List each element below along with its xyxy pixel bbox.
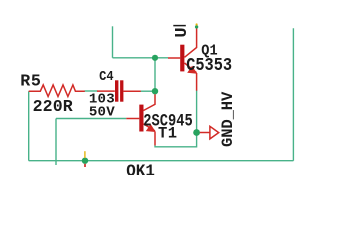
- transistor T1 base bar: [139, 105, 143, 132]
- transistor T1 collector pin: [144, 94, 156, 110]
- svg-text:GND_HV: GND_HV: [219, 91, 237, 147]
- transistor Q1 emitter pin: [196, 73, 198, 91]
- capacitor C4 left plate: [115, 80, 118, 101]
- node C junction dot (bottom wire): [82, 158, 88, 164]
- svg-text:C5353: C5353: [186, 56, 232, 77]
- svg-text:C4: C4: [99, 68, 114, 84]
- label U overline: [173, 25, 186, 27]
- capacitor C4 leads: [97, 90, 141, 92]
- wire C4 to node B: [141, 90, 153, 92]
- transistor Q1 base pin: [168, 57, 180, 59]
- svg-text:T1: T1: [158, 125, 177, 143]
- transistor Q1 collector diagonal and pin: [185, 28, 197, 57]
- node D junction dot (emitter node): [193, 129, 200, 136]
- wire vertical top-left stub: [112, 26, 114, 58]
- resistor R5: [29, 85, 85, 97]
- node A junction dot: [152, 55, 158, 61]
- flag GND_HV lead: [200, 132, 210, 134]
- wire T1 base horizontal: [56, 118, 126, 120]
- red pin stub below node C: [84, 164, 86, 167]
- wire T1 emitter loop: [155, 145, 197, 147]
- wire left vertical: [28, 91, 30, 160]
- wire Q1 emitter vertical: [196, 91, 198, 131]
- wire R5 to C4: [85, 90, 98, 92]
- wire right vertical: [292, 28, 294, 160]
- transistor T1 emitter pin: [154, 132, 156, 146]
- flag GND_HV arrow outline: [210, 126, 219, 139]
- wire Q1 base horizontal: [113, 57, 169, 59]
- svg-text:QK1: QK1: [126, 161, 155, 175]
- capacitor C4 right plate: [120, 80, 123, 101]
- yellow stub above node C: [84, 151, 86, 158]
- wire emitter loop right riser: [196, 136, 198, 148]
- transistor T1 base pin: [126, 118, 139, 120]
- svg-text:R5: R5: [20, 73, 41, 92]
- node B junction dot: [152, 88, 158, 94]
- svg-text:U: U: [173, 27, 192, 37]
- svg-text:50V: 50V: [89, 104, 115, 120]
- transistor T1 emitter diagonal: [144, 124, 156, 131]
- Q1 collector unconnected end marker: [195, 25, 198, 28]
- transistor T1 emitter arrow: [146, 124, 156, 132]
- wire node A to node B vertical: [154, 58, 156, 91]
- transistor Q1 emitter arrow: [187, 66, 197, 74]
- wire T1 base vertical: [55, 119, 57, 166]
- wire bottom horizontal: [29, 160, 294, 162]
- svg-text:220R: 220R: [33, 97, 73, 116]
- transistor Q1 emitter diagonal: [185, 63, 197, 73]
- transistor Q1 base bar: [180, 45, 184, 72]
